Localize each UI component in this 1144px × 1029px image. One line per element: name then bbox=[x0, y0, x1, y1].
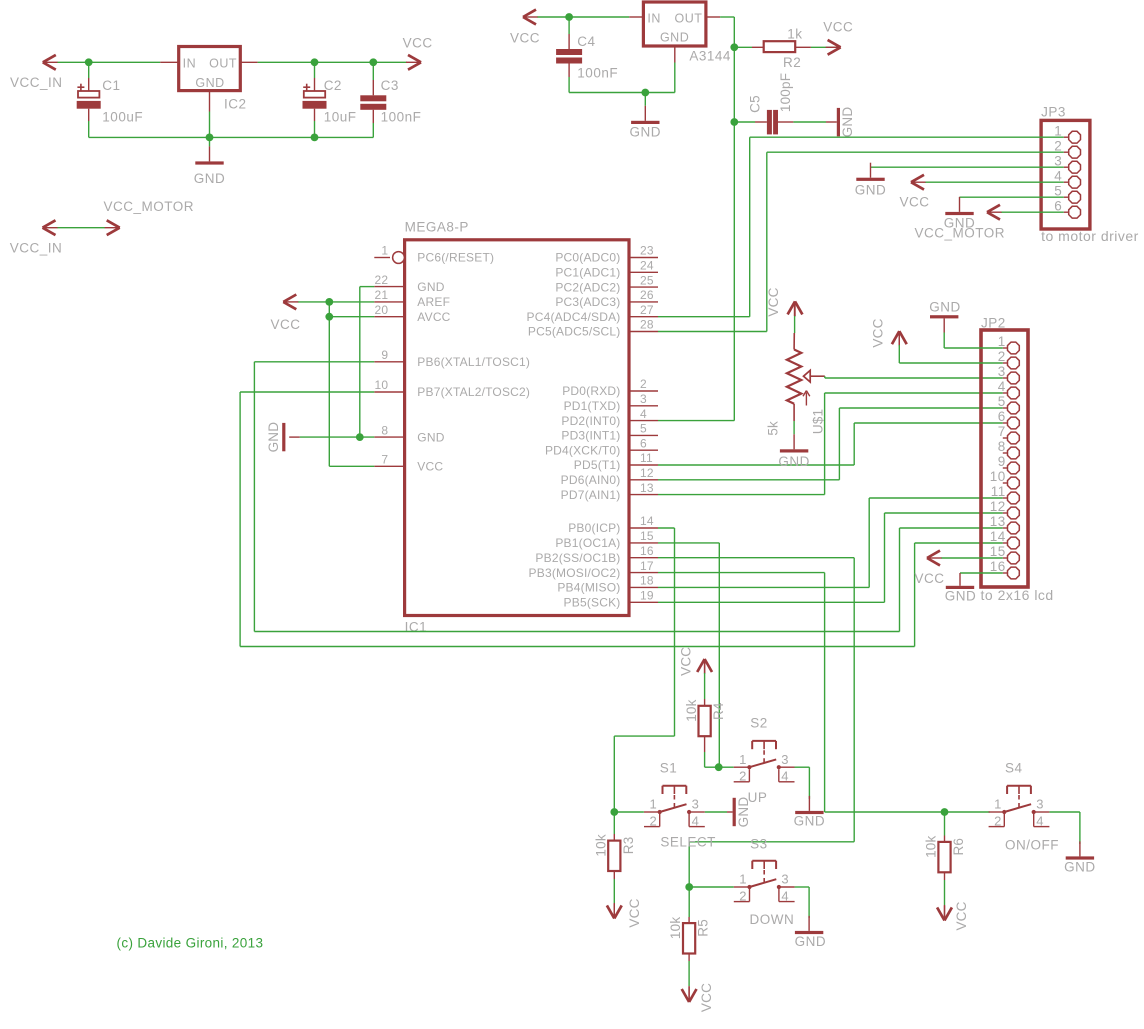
svg-text:7: 7 bbox=[998, 424, 1006, 439]
node C4 top junction bbox=[565, 13, 573, 21]
svg-text:VCC: VCC bbox=[915, 571, 945, 586]
svg-text:27: 27 bbox=[640, 303, 654, 317]
JP2 pin 2 pad bbox=[998, 349, 1020, 369]
svg-text:PB4(MISO): PB4(MISO) bbox=[557, 581, 620, 595]
svg-text:C3: C3 bbox=[381, 78, 399, 93]
supply arrow VCC (JP2 pin15) bbox=[927, 551, 942, 566]
resistor R4 bbox=[699, 706, 711, 736]
net label GND (JP2 pin16) bbox=[945, 589, 977, 604]
svg-text:1: 1 bbox=[998, 334, 1006, 349]
label MEGA8-P bbox=[405, 220, 469, 235]
svg-text:13: 13 bbox=[640, 481, 654, 495]
net label GND (JP3 pin5) bbox=[944, 216, 976, 231]
capacitor C3 bbox=[360, 95, 386, 110]
svg-text:GND: GND bbox=[417, 280, 444, 294]
net label VCC rotated (R5) bbox=[699, 983, 714, 1012]
ground symbol (regulator) bbox=[195, 137, 223, 164]
resistor R2 bbox=[764, 41, 796, 52]
svg-text:18: 18 bbox=[640, 574, 654, 588]
mcu pin 14 PB0(ICP) bbox=[568, 514, 658, 535]
mcu pin 25 PC2(ADC2) bbox=[555, 273, 658, 294]
svg-text:R2: R2 bbox=[783, 55, 801, 70]
label R3 bbox=[621, 837, 636, 855]
value 100pF bbox=[778, 73, 793, 112]
svg-text:15: 15 bbox=[640, 529, 654, 543]
svg-text:3: 3 bbox=[781, 872, 789, 887]
svg-text:4: 4 bbox=[781, 888, 789, 903]
svg-text:11: 11 bbox=[640, 451, 653, 465]
mcu pin 26 PC3(ADC3) bbox=[555, 288, 658, 309]
JP2 pin 11 pad bbox=[991, 484, 1020, 504]
node R2 junction bbox=[730, 43, 738, 51]
label S4 bbox=[1005, 761, 1023, 776]
wire C1 bottom lead bbox=[88, 109, 90, 138]
svg-text:1: 1 bbox=[1054, 123, 1062, 138]
svg-text:A3144: A3144 bbox=[689, 49, 731, 64]
svg-text:PC0(ADC0): PC0(ADC0) bbox=[555, 251, 620, 265]
net label UP bbox=[748, 790, 768, 805]
mcu pin 16 PB2(SS/OC1B) bbox=[535, 544, 658, 565]
svg-text:VCC: VCC bbox=[271, 317, 301, 332]
svg-text:GND: GND bbox=[855, 183, 887, 198]
wire JP2 pin2 bbox=[899, 331, 1003, 363]
pin stub A3144 IN bbox=[629, 16, 643, 18]
svg-text:17: 17 bbox=[640, 559, 654, 573]
svg-text:DOWN: DOWN bbox=[750, 912, 795, 927]
svg-text:PD4(XCK/T0): PD4(XCK/T0) bbox=[545, 443, 621, 457]
svg-text:S3: S3 bbox=[750, 837, 768, 852]
wire R6 top lead bbox=[944, 812, 946, 842]
svg-text:1: 1 bbox=[739, 752, 747, 767]
svg-text:GND: GND bbox=[945, 589, 977, 604]
svg-text:C2: C2 bbox=[324, 78, 342, 93]
svg-text:1: 1 bbox=[649, 797, 657, 812]
wire S3 pin3 to GND bbox=[795, 887, 810, 918]
JP2 pin 16 pad bbox=[990, 559, 1020, 579]
value 1k bbox=[787, 27, 802, 42]
svg-text:1: 1 bbox=[739, 872, 747, 887]
pot wiper bbox=[804, 370, 825, 382]
switch S3 bbox=[734, 861, 795, 904]
wire PC5 to JP3 vertical bbox=[658, 331, 767, 333]
wire AVCC bbox=[329, 316, 374, 318]
JP2 pin 8 pad bbox=[998, 439, 1020, 459]
svg-text:PD1(TXD): PD1(TXD) bbox=[564, 399, 621, 413]
node S4 junction bbox=[941, 808, 949, 816]
svg-text:100nF: 100nF bbox=[577, 66, 618, 81]
mcu pin 5 PD3(INT1) bbox=[561, 422, 658, 443]
node AVCC junction bbox=[325, 313, 333, 321]
net label VCC bbox=[403, 36, 433, 51]
net label VCC rotated (R6) bbox=[954, 901, 969, 930]
mcu pin 12 PD6(AIN0) bbox=[561, 466, 658, 487]
svg-text:5k: 5k bbox=[766, 421, 781, 436]
svg-text:1k: 1k bbox=[787, 27, 802, 42]
JP2 pin 4 pad bbox=[998, 379, 1020, 399]
svg-text:S1: S1 bbox=[660, 761, 678, 776]
svg-text:28: 28 bbox=[640, 318, 654, 332]
svg-text:4: 4 bbox=[1054, 168, 1062, 183]
svg-text:3: 3 bbox=[1054, 153, 1062, 168]
capacitor C2 bbox=[303, 84, 327, 109]
JP2 pin 1 pad bbox=[998, 334, 1020, 354]
value 10k (R5) bbox=[668, 917, 683, 939]
svg-text:4: 4 bbox=[998, 379, 1006, 394]
svg-text:U$1: U$1 bbox=[811, 409, 826, 434]
wire JP3 pin4 to VCC bbox=[926, 181, 1064, 183]
wire R4 top lead bbox=[704, 659, 706, 706]
supply arrow pair VCC_MOTOR/VCC_IN bbox=[43, 220, 120, 235]
JP3 pin 5 pad bbox=[1054, 183, 1080, 203]
pin stub IC2 OUT bbox=[240, 61, 257, 63]
wire S4 pin3 to GND bbox=[1049, 812, 1080, 844]
mcu pin 1 PC6(/RESET) bbox=[374, 244, 494, 265]
svg-text:PB0(ICP): PB0(ICP) bbox=[568, 521, 620, 535]
svg-text:PB2(SS/OC1B): PB2(SS/OC1B) bbox=[535, 551, 620, 565]
value 10k (R3) bbox=[593, 834, 608, 856]
label DOWN bbox=[750, 912, 795, 927]
net label VCC_MOTOR bbox=[104, 199, 195, 214]
mcu pin 4 PD2(INT0) bbox=[561, 407, 658, 428]
mcu pin 22 GND bbox=[374, 273, 444, 294]
mcu pin 6 PD4(XCK/T0) bbox=[545, 436, 658, 457]
value 100nF bbox=[381, 110, 422, 125]
node S2 junction bbox=[715, 763, 723, 771]
pin stub IC2 IN bbox=[160, 61, 178, 63]
node S3 junction bbox=[685, 883, 693, 891]
svg-text:IN: IN bbox=[647, 12, 661, 26]
svg-text:PC2(ADC2): PC2(ADC2) bbox=[555, 280, 620, 294]
svg-text:26: 26 bbox=[640, 288, 654, 302]
svg-text:10k: 10k bbox=[684, 699, 699, 721]
net label VCC (R2) bbox=[823, 20, 853, 35]
svg-text:GND: GND bbox=[266, 422, 281, 453]
wire PD2 to hall bbox=[658, 420, 734, 422]
svg-text:3: 3 bbox=[998, 364, 1006, 379]
svg-text:PB7(XTAL2/TOSC2): PB7(XTAL2/TOSC2) bbox=[417, 385, 530, 399]
svg-text:VCC: VCC bbox=[954, 901, 969, 930]
svg-text:VCC: VCC bbox=[678, 647, 693, 676]
svg-text:VCC_IN: VCC_IN bbox=[10, 75, 63, 90]
wire JP3 pin2 to PC5 bbox=[767, 152, 1064, 331]
svg-text:R5: R5 bbox=[696, 919, 711, 937]
svg-text:5: 5 bbox=[1054, 183, 1062, 198]
label R2 bbox=[783, 55, 801, 70]
wire PD7 to JP2 pin4 bbox=[658, 393, 1003, 495]
wire PB7 to JP2 pin14 bbox=[240, 392, 1003, 647]
svg-text:15: 15 bbox=[990, 544, 1006, 559]
svg-text:MEGA8-P: MEGA8-P bbox=[405, 220, 469, 235]
node C3 top junction bbox=[369, 58, 377, 66]
svg-text:GND: GND bbox=[794, 814, 826, 829]
svg-text:VCC: VCC bbox=[823, 20, 853, 35]
switch S1 bbox=[644, 786, 705, 829]
net label VCC_IN (motor tie) bbox=[10, 241, 63, 256]
wire S1 pin1 bbox=[614, 811, 644, 813]
wire PB5 to JP2 pin12 bbox=[658, 513, 1003, 602]
switch S2 bbox=[734, 741, 795, 784]
wire R3 top lead bbox=[613, 812, 615, 841]
JP2 pin 12 pad bbox=[990, 499, 1020, 519]
svg-text:100pF: 100pF bbox=[778, 73, 793, 112]
svg-text:24: 24 bbox=[640, 259, 654, 273]
svg-text:14: 14 bbox=[640, 514, 654, 528]
svg-text:9: 9 bbox=[998, 454, 1006, 469]
wire R2 to VCC bbox=[811, 46, 838, 48]
wire GND pins 22-8 vertical bbox=[360, 287, 375, 438]
node C2 top junction bbox=[311, 58, 319, 66]
supply arrow VCC (regulator out) bbox=[406, 55, 421, 70]
IC2 pin name GND bbox=[195, 76, 224, 90]
label to 2x16 lcd bbox=[981, 587, 1054, 603]
mcu pin 21 AREF bbox=[374, 288, 450, 309]
svg-text:12: 12 bbox=[990, 499, 1006, 514]
wire VCC_IN to IC2 IN bbox=[58, 61, 161, 63]
pin stub A3144 OUT bbox=[706, 16, 720, 18]
connector JP3 box bbox=[1041, 120, 1090, 229]
svg-text:JP3: JP3 bbox=[1041, 105, 1066, 120]
pin stub R2 right bbox=[795, 46, 811, 48]
mcu pin 9 PB6(XTAL1/TOSC1) bbox=[374, 348, 530, 369]
supply arrow VCC_IN bbox=[43, 55, 58, 70]
net label GND rotated (S1) bbox=[736, 797, 751, 828]
mcu pin 27 PC4(ADC4/SDA) bbox=[527, 303, 658, 324]
JP2 pin 13 pad bbox=[990, 514, 1020, 534]
regulator IC2 box bbox=[179, 47, 241, 91]
ground symbol (JP2 pin16) bbox=[946, 573, 974, 589]
JP2 pin 9 pad bbox=[998, 454, 1020, 474]
wire S1 pin3 to GND bbox=[705, 811, 727, 813]
svg-text:PD5(T1): PD5(T1) bbox=[574, 458, 621, 472]
mcu pin 8 GND bbox=[374, 423, 444, 444]
svg-text:IC1: IC1 bbox=[405, 620, 428, 635]
ground symbol (JP3 pin3) bbox=[856, 163, 884, 181]
mcu pin 17 PB3(MOSI/OC2) bbox=[529, 559, 658, 580]
ground symbol (S3) bbox=[795, 916, 823, 934]
svg-text:8: 8 bbox=[998, 439, 1006, 454]
supply arrow VCC (hall) bbox=[523, 10, 538, 25]
svg-text:9: 9 bbox=[381, 348, 388, 362]
mcu pin 19 PB5(SCK) bbox=[564, 589, 658, 610]
svg-text:23: 23 bbox=[640, 244, 654, 258]
svg-text:PD2(INT0): PD2(INT0) bbox=[561, 414, 620, 428]
wire pin8 GND bbox=[300, 436, 375, 438]
svg-text:2: 2 bbox=[640, 377, 647, 391]
JP2 pin 10 pad bbox=[990, 469, 1020, 489]
svg-text:13: 13 bbox=[990, 514, 1006, 529]
svg-text:7: 7 bbox=[381, 453, 388, 467]
mcu pin 2 PD0(RXD) bbox=[562, 377, 658, 398]
JP2 pin 5 pad bbox=[998, 394, 1020, 414]
wire PB4 to JP2 pin11 bbox=[658, 498, 1003, 587]
node pin8 junction bbox=[356, 433, 364, 441]
wire R3 bottom lead bbox=[613, 871, 615, 918]
svg-text:2: 2 bbox=[649, 813, 657, 828]
svg-text:VCC: VCC bbox=[766, 287, 781, 316]
svg-text:VCC: VCC bbox=[403, 36, 433, 51]
svg-text:1: 1 bbox=[381, 244, 388, 258]
svg-text:VCC: VCC bbox=[417, 460, 443, 474]
label U$1 bbox=[811, 409, 826, 434]
svg-text:GND: GND bbox=[736, 797, 751, 828]
resistor R6 bbox=[938, 842, 950, 872]
label C5 bbox=[747, 95, 762, 113]
wire pot bottom lead bbox=[793, 404, 795, 421]
label R5 bbox=[696, 919, 711, 937]
net label VCC rotated (R3) bbox=[627, 898, 642, 927]
svg-text:VCC_IN: VCC_IN bbox=[10, 241, 63, 256]
label C3 bbox=[381, 78, 399, 93]
mcu pin 28 PC5(ADC5/SCL) bbox=[528, 318, 658, 339]
IC2 pin name OUT bbox=[209, 57, 237, 71]
wire PD5 to JP2 pin6 bbox=[658, 423, 1003, 465]
svg-text:VCC: VCC bbox=[870, 318, 885, 347]
svg-text:C5: C5 bbox=[747, 95, 762, 113]
svg-text:GND: GND bbox=[195, 76, 224, 90]
mcu pin 18 PB4(MISO) bbox=[557, 574, 658, 595]
svg-text:4: 4 bbox=[692, 813, 700, 828]
net label GND (S3) bbox=[795, 934, 827, 949]
svg-text:PB1(OC1A): PB1(OC1A) bbox=[555, 536, 620, 550]
wire C2 bottom lead bbox=[314, 109, 316, 138]
wire C4 bottom lead bbox=[568, 64, 570, 93]
supply arrow VCC down (R3) bbox=[607, 903, 622, 918]
supply arrow VCC down (R6) bbox=[937, 905, 952, 920]
svg-text:14: 14 bbox=[990, 529, 1006, 544]
ground symbol (S4) bbox=[1066, 841, 1094, 859]
wire C5 left lead bbox=[734, 121, 755, 123]
ground symbol (pot) bbox=[780, 421, 808, 453]
label ON/OFF bbox=[1005, 838, 1059, 853]
svg-text:3: 3 bbox=[640, 392, 647, 406]
svg-text:25: 25 bbox=[640, 273, 654, 287]
svg-text:12: 12 bbox=[640, 466, 654, 480]
wire R4 bottom lead bbox=[705, 736, 719, 767]
svg-text:PC5(ADC5/SCL): PC5(ADC5/SCL) bbox=[528, 325, 621, 339]
net label GND (JP3 pin3) bbox=[855, 183, 887, 198]
net label GND (JP2 pin1) bbox=[929, 300, 961, 315]
label C1 bbox=[102, 78, 120, 93]
mcu pin 20 AVCC bbox=[374, 303, 450, 324]
label IC2 bbox=[224, 97, 247, 112]
svg-text:GND: GND bbox=[795, 934, 827, 949]
ground symbol (JP3 pin5) bbox=[945, 197, 973, 215]
mcu pin 13 PD7(AIN1) bbox=[561, 481, 658, 502]
svg-text:R4: R4 bbox=[711, 702, 726, 720]
svg-text:5: 5 bbox=[640, 422, 647, 436]
wire C2 top lead bbox=[314, 62, 316, 91]
svg-text:10k: 10k bbox=[924, 835, 939, 857]
A3144 pin name IN bbox=[647, 12, 661, 26]
label A3144 bbox=[689, 49, 731, 64]
wire JP2 pin1 bbox=[944, 347, 1003, 349]
svg-text:2: 2 bbox=[994, 813, 1002, 828]
ground symbol inverted (JP2 pin1) bbox=[930, 315, 958, 348]
pin stub C5 left bbox=[755, 121, 767, 123]
wire C4 top lead bbox=[568, 17, 570, 49]
A3144 pin name GND bbox=[660, 31, 689, 45]
svg-text:10uF: 10uF bbox=[324, 110, 357, 125]
svg-text:GND: GND bbox=[778, 454, 810, 469]
svg-text:10k: 10k bbox=[668, 917, 683, 939]
net label GND rotated (C5) bbox=[840, 107, 855, 138]
copyright text bbox=[117, 936, 264, 951]
wire R2 left lead bbox=[734, 46, 752, 48]
supply arrow VCC down (R5) bbox=[682, 987, 697, 1002]
JP2 pin 7 pad bbox=[998, 424, 1020, 444]
wire JP3 pin6 to VCC_MOTOR bbox=[1002, 211, 1064, 213]
value 100nF (C4) bbox=[577, 66, 618, 81]
wire A3144 GND to rail bbox=[674, 63, 676, 93]
node AREF junction bbox=[325, 298, 333, 306]
wire PB3 to S4 bbox=[658, 573, 990, 812]
wire S3 pin1 bbox=[689, 886, 734, 888]
wire AREF to VCC arrow bbox=[298, 301, 375, 303]
svg-text:S4: S4 bbox=[1005, 761, 1023, 776]
svg-text:6: 6 bbox=[998, 409, 1006, 424]
wire C1 top lead bbox=[88, 62, 90, 91]
wire JP3 pin3 to GND bbox=[871, 166, 1064, 168]
label S2 bbox=[750, 716, 768, 731]
svg-text:VCC: VCC bbox=[900, 195, 930, 210]
svg-text:22: 22 bbox=[375, 273, 389, 287]
net label GND (S2) bbox=[794, 814, 826, 829]
node C5 junction bbox=[730, 118, 738, 126]
svg-text:ON/OFF: ON/OFF bbox=[1005, 838, 1059, 853]
wire PB6 to JP2 pin13 bbox=[254, 362, 1002, 632]
JP2 pin 6 pad bbox=[998, 409, 1020, 429]
svg-text:PD6(AIN0): PD6(AIN0) bbox=[561, 473, 621, 487]
svg-text:100uF: 100uF bbox=[102, 110, 143, 125]
wire PB0 to S1 bbox=[614, 528, 674, 812]
label R6 bbox=[951, 838, 966, 856]
label to motor driver bbox=[1041, 228, 1139, 244]
wire ground rail bbox=[89, 136, 374, 138]
net label VCC (JP2 pin15) bbox=[915, 571, 945, 586]
svg-text:PB3(MOSI/OC2): PB3(MOSI/OC2) bbox=[529, 566, 621, 580]
svg-text:PC3(ADC3): PC3(ADC3) bbox=[555, 295, 620, 309]
svg-text:4: 4 bbox=[781, 769, 789, 784]
svg-text:20: 20 bbox=[375, 303, 389, 317]
supply arrow VCC (AREF) bbox=[283, 295, 298, 310]
svg-text:PB6(XTAL1/TOSC1): PB6(XTAL1/TOSC1) bbox=[417, 355, 530, 369]
svg-text:VCC_MOTOR: VCC_MOTOR bbox=[104, 199, 195, 214]
node S1 junction bbox=[610, 808, 618, 816]
A3144 pin name OUT bbox=[675, 12, 703, 26]
net label VCC (hall) bbox=[510, 31, 540, 46]
capacitor C5 bbox=[767, 110, 778, 134]
svg-text:to motor driver: to motor driver bbox=[1041, 228, 1139, 244]
net label VCC (AREF) bbox=[271, 317, 301, 332]
IC2 pin name IN bbox=[183, 57, 197, 71]
svg-text:5: 5 bbox=[998, 394, 1006, 409]
pin stub R2 left bbox=[752, 46, 764, 48]
svg-text:3: 3 bbox=[1036, 797, 1044, 812]
resistor R3 bbox=[608, 841, 620, 871]
wire JP3 pin1 to PC4 bbox=[750, 137, 1064, 317]
wire IC2 GND to rail bbox=[209, 112, 211, 138]
ground symbol rotated (S1) bbox=[727, 798, 736, 826]
wire A3144 OUT corner bbox=[720, 16, 734, 18]
label IC1 bbox=[405, 620, 428, 635]
mcu pin 3 PD1(TXD) bbox=[564, 392, 658, 413]
supply arrow VCC_MOTOR (JP3 pin6) bbox=[987, 205, 1002, 220]
svg-text:PB5(SCK): PB5(SCK) bbox=[564, 596, 621, 610]
label S1 bbox=[660, 761, 678, 776]
svg-text:PC1(ADC1): PC1(ADC1) bbox=[555, 266, 620, 280]
net label VCC (JP3 pin4) bbox=[900, 195, 930, 210]
svg-text:2: 2 bbox=[739, 769, 747, 784]
